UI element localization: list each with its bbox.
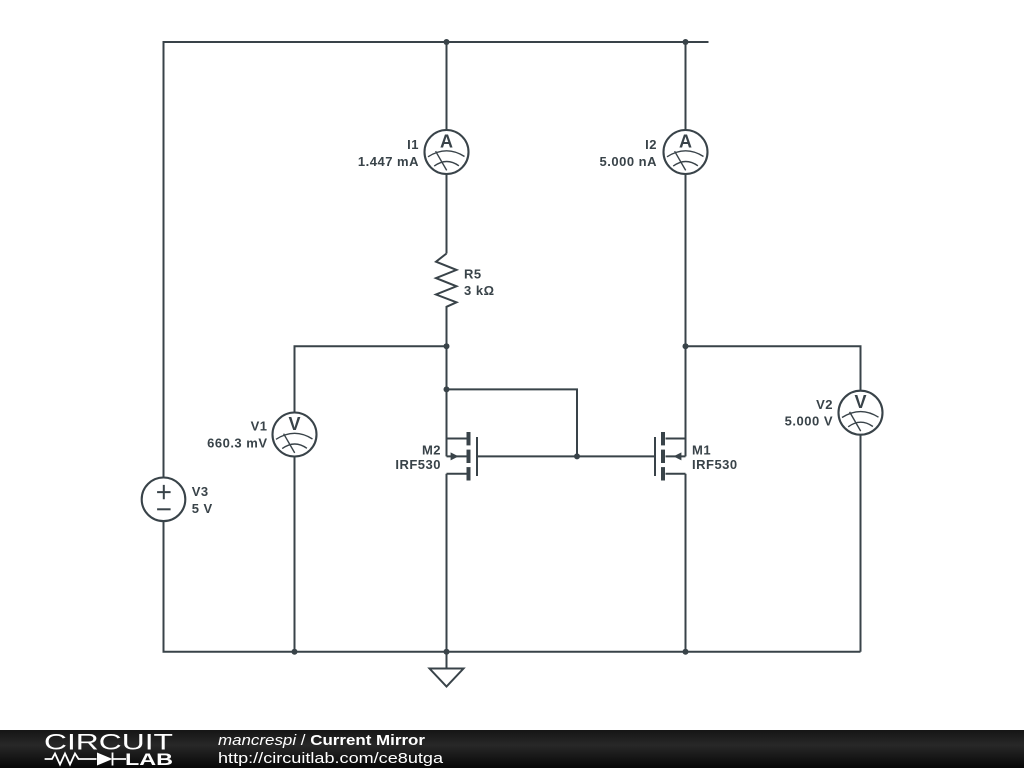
- svg-text:I1: I1: [407, 137, 419, 152]
- svg-text:3 kΩ: 3 kΩ: [464, 283, 495, 298]
- svg-text:5.000 V: 5.000 V: [785, 414, 833, 429]
- svg-text:I2: I2: [645, 137, 657, 152]
- svg-text:V: V: [854, 392, 866, 412]
- svg-text:V1: V1: [251, 419, 268, 434]
- svg-text:A: A: [679, 132, 692, 152]
- svg-text:660.3 mV: 660.3 mV: [207, 435, 267, 450]
- svg-text:5 V: 5 V: [192, 501, 213, 516]
- svg-text:A: A: [440, 132, 453, 152]
- svg-text:V3: V3: [192, 484, 209, 499]
- svg-text:V2: V2: [816, 397, 833, 412]
- svg-text:M2: M2: [422, 443, 441, 458]
- svg-text:IRF530: IRF530: [692, 457, 738, 472]
- svg-text:V: V: [288, 414, 300, 434]
- svg-text:M1: M1: [692, 443, 711, 458]
- svg-text:IRF530: IRF530: [395, 457, 441, 472]
- svg-text:5.000 nA: 5.000 nA: [600, 154, 658, 169]
- svg-text:1.447 mA: 1.447 mA: [358, 154, 419, 169]
- svg-text:R5: R5: [464, 267, 482, 282]
